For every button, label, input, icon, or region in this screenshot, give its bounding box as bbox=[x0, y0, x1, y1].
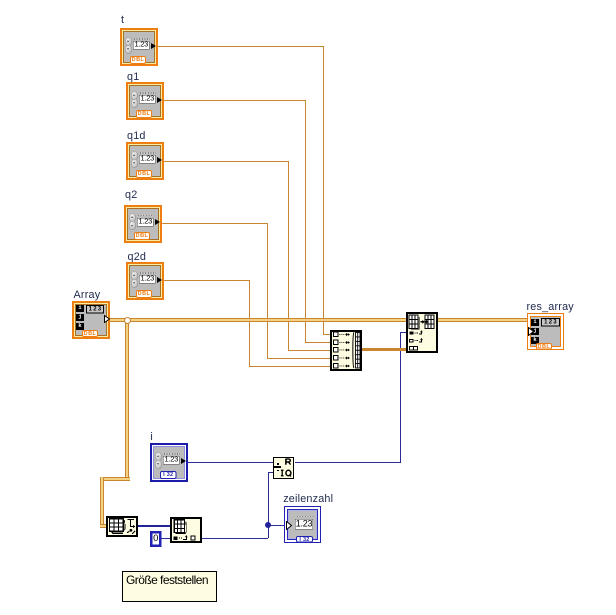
constant 0 (I32) bbox=[150, 531, 162, 547]
control q1 (DBL numeric) bbox=[126, 82, 164, 120]
label q2 bbox=[125, 190, 137, 201]
control q1d (DBL numeric) bbox=[126, 142, 164, 180]
wire divisor from junction to Quotient Remainder bbox=[268, 472, 269, 526]
divide sign bbox=[274, 466, 281, 468]
control i (I32 numeric) bbox=[150, 443, 188, 482]
control t (DBL numeric) bbox=[120, 28, 158, 66]
control Array (2D DBL array) bbox=[72, 301, 110, 339]
label res_array bbox=[527, 302, 574, 313]
label q2d bbox=[128, 252, 147, 263]
label zeilenzahl bbox=[283, 494, 333, 505]
label q1 bbox=[127, 72, 139, 83]
control q2d (DBL numeric) bbox=[126, 262, 164, 300]
label q1d bbox=[127, 131, 146, 142]
node Quotient and Remainder bbox=[273, 457, 295, 479]
wire 2D array: Replace Array Subset to res_array bbox=[435, 318, 528, 322]
wire q1 to Build Array bbox=[164, 100, 306, 101]
junction dot blue bbox=[265, 522, 271, 528]
wire q2d to Build Array bbox=[164, 280, 250, 281]
node Index Array bbox=[170, 517, 202, 543]
wire 2D array into Array Size bbox=[100, 524, 109, 528]
wire 2D array jog left bbox=[100, 477, 130, 481]
wire 2D array down to Array Size bbox=[100, 477, 104, 528]
indicator res_array (2D DBL array) bbox=[527, 313, 564, 350]
junction ring on 2D array wire bbox=[124, 317, 131, 324]
wire 2D array main: Array to Replace Array Subset bbox=[110, 318, 409, 322]
wire q2 to Build Array bbox=[162, 223, 268, 224]
control q2 (DBL numeric) bbox=[124, 205, 162, 243]
indicator zeilenzahl (I32 numeric) bbox=[284, 506, 321, 543]
comment box Groesse feststellen bbox=[122, 571, 217, 602]
wire t to Build Array bbox=[158, 46, 324, 47]
wire Quotient Remainder R output to Replace Array Subset index bbox=[295, 462, 401, 463]
wire junction to zeilenzahl bbox=[268, 525, 286, 526]
label Array bbox=[74, 290, 101, 301]
node Replace Array Subset bbox=[406, 312, 438, 353]
wire q1d to Build Array bbox=[164, 161, 289, 162]
wire 1D array: Build Array to Replace Array Subset bbox=[360, 348, 408, 350]
wire 0 constant to Index Array bbox=[161, 538, 171, 539]
node Build Array bbox=[330, 330, 362, 371]
wire 1D I32 array: Array Size to Index Array bbox=[137, 525, 171, 527]
wire Index Array output to junction bbox=[201, 538, 268, 539]
node Array Size bbox=[106, 516, 138, 537]
label i bbox=[150, 432, 153, 443]
wire 2D array branch down from junction bbox=[125, 320, 129, 481]
wire i to Quotient Remainder bbox=[188, 462, 273, 463]
label t bbox=[121, 15, 124, 26]
